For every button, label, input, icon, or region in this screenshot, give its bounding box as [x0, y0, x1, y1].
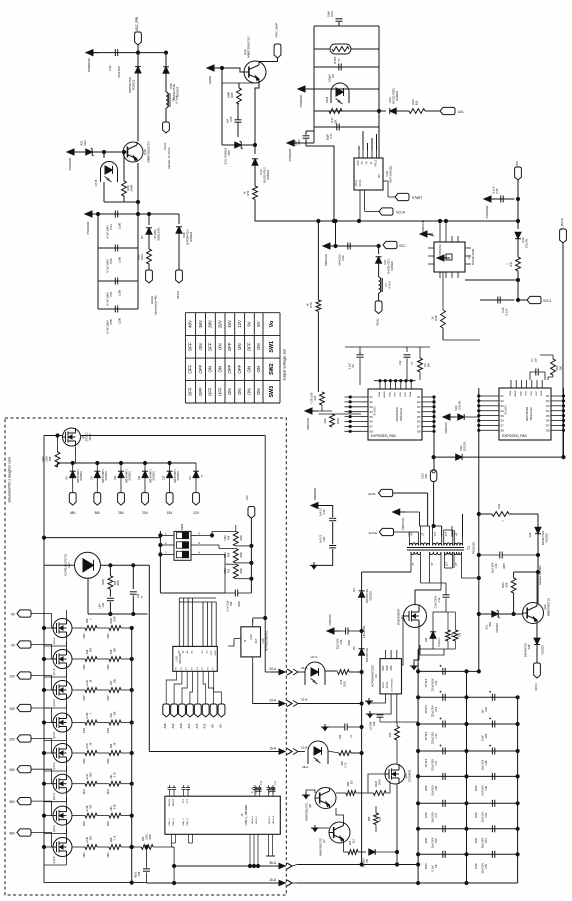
- svg-text:SOD523: SOD523: [177, 471, 180, 481]
- power flag VCC2: [383, 241, 406, 248]
- svg-text:1206: 1206: [348, 640, 351, 646]
- diode D8: [66, 463, 84, 493]
- svg-text:R95: R95: [230, 92, 234, 98]
- svg-text:NCP4306AAZZZAD: NCP4306AAZZZAD: [372, 665, 375, 687]
- transistor Q13-B: [53, 713, 72, 739]
- svg-text:23-A: 23-A: [269, 699, 277, 703]
- svg-text:0402: 0402: [108, 664, 110, 670]
- svg-text:GND: GND: [250, 634, 253, 640]
- svg-text:51K: 51K: [353, 838, 356, 843]
- svg-text:0402: 0402: [108, 727, 110, 733]
- svg-text:C55: C55: [484, 863, 488, 868]
- svg-text:1206: 1206: [475, 812, 478, 818]
- svg-text:24-B: 24-B: [301, 666, 307, 670]
- svg-text:D6: D6: [546, 419, 550, 423]
- wire: [434, 456, 456, 458]
- svg-text:ZD1: ZD1: [488, 621, 492, 626]
- svg-text:OUT: OUT: [255, 638, 258, 644]
- capacitor C12b: [425, 665, 445, 691]
- svg-text:R253: R253: [110, 617, 113, 623]
- svg-text:6.2V SOD323: 6.2V SOD323: [224, 147, 228, 164]
- svg-text:36V: 36V: [9, 800, 16, 804]
- svg-text:SOD523: SOD523: [105, 471, 108, 481]
- svg-text:Q7: Q7: [322, 839, 326, 843]
- optocoupler U7-B: [94, 162, 118, 187]
- svg-text:R68: R68: [110, 837, 113, 842]
- svg-text:ON: ON: [227, 388, 232, 395]
- wire: [179, 598, 216, 646]
- svg-text:10uF,50V: 10uF,50V: [482, 812, 485, 823]
- wire: [98, 308, 138, 310]
- svg-text:R60: R60: [110, 743, 113, 748]
- svg-text:36V: 36V: [94, 511, 101, 515]
- svg-text:ON: ON: [237, 344, 242, 351]
- connector pin 5V: [11, 610, 31, 617]
- connector pin 15V: [9, 704, 31, 711]
- svg-text:1206: 1206: [118, 290, 122, 296]
- wire: [359, 131, 377, 150]
- resistor R15: [433, 612, 462, 649]
- resistor R108: [72, 804, 97, 826]
- transistor Q1 IPA60R280: [397, 605, 427, 628]
- svg-text:Q8: Q8: [308, 804, 312, 808]
- wire: [160, 592, 225, 594]
- connector pin 12V: [193, 493, 200, 515]
- wire: [228, 639, 234, 646]
- svg-text:R58: R58: [110, 649, 113, 654]
- svg-text:U14: U14: [261, 638, 265, 643]
- svg-text:VCCA: VCCA: [386, 681, 389, 688]
- resistor R60: [97, 742, 133, 763]
- svg-text:D11: D11: [138, 475, 141, 480]
- svg-text:C26: C26: [138, 871, 141, 876]
- svg-text:C54: C54: [330, 11, 334, 17]
- svg-text:0.39 1206: 0.39 1206: [311, 392, 314, 404]
- table output voltage set: [185, 313, 286, 403]
- wire: [417, 827, 520, 830]
- off-page 15-A: [269, 747, 292, 755]
- wire: [81, 435, 265, 437]
- optocoupler U8-A: [302, 741, 328, 769]
- svg-text:10*16.5: 10*16.5: [425, 704, 428, 713]
- resistor R26: [224, 549, 243, 563]
- wire: [147, 882, 287, 884]
- svg-text:Q15-B: Q15-B: [53, 856, 56, 863]
- svg-text:15V: 15V: [9, 707, 16, 711]
- svg-text:J1: J1: [240, 813, 244, 816]
- svg-text:VBUS_3: VBUS_3: [269, 815, 271, 824]
- wire: [516, 180, 519, 229]
- svg-text:1206: 1206: [475, 837, 478, 843]
- svg-text:4.7uH: 4.7uH: [388, 281, 392, 288]
- IC U18 NCP1340JQ1: [354, 150, 395, 221]
- svg-text:12V: 12V: [193, 511, 200, 515]
- svg-text:PWRGND: PWRGND: [313, 488, 317, 500]
- wire: [395, 784, 398, 866]
- ground PWRGND: [86, 50, 99, 72]
- svg-text:PWRGND: PWRGND: [401, 518, 405, 530]
- svg-text:0805: 0805: [503, 563, 506, 569]
- svg-text:A20: A20: [187, 723, 191, 728]
- wire: [345, 347, 430, 382]
- wire: [236, 544, 253, 580]
- wire: [314, 48, 379, 50]
- svg-text:AUXL: AUXL: [368, 492, 376, 496]
- wire: [378, 293, 380, 301]
- svg-text:SOD323: SOD323: [546, 533, 549, 543]
- wire: [166, 671, 221, 704]
- svg-text:ES1JFL: ES1JFL: [438, 637, 441, 647]
- diode D18: [525, 638, 545, 657]
- zener ZD5: [224, 141, 243, 164]
- svg-text:C62: C62: [484, 706, 488, 711]
- svg-text:PWRGND: PWRGND: [68, 158, 72, 171]
- svg-text:2T: 2T: [411, 562, 415, 565]
- svg-text:C30: C30: [339, 734, 342, 739]
- svg-text:C34: C34: [109, 224, 113, 230]
- ground PWRGND: [323, 243, 336, 266]
- svg-text:R104: R104: [86, 679, 89, 685]
- svg-text:15-B: 15-B: [301, 746, 307, 750]
- svg-text:D22: D22: [454, 405, 458, 410]
- svg-text:PWRGND: PWRGND: [87, 57, 91, 71]
- transistor Q15-A: [53, 806, 72, 832]
- svg-text:FB: FB: [366, 161, 369, 164]
- svg-text:4.7uF,100V: 4.7uF,100V: [106, 292, 110, 306]
- svg-text:D7: D7: [140, 235, 144, 239]
- resistor R82: [336, 779, 368, 795]
- svg-text:1206: 1206: [475, 785, 478, 791]
- svg-text:28V: 28V: [118, 511, 125, 515]
- svg-text:AUXL: AUXL: [376, 318, 380, 326]
- resistor R33b: [409, 99, 425, 113]
- wire: [536, 645, 538, 664]
- wire: [31, 614, 53, 629]
- wire: [397, 722, 418, 726]
- connector pin 48V: [69, 493, 76, 515]
- diode D11: [138, 463, 156, 493]
- resistor R104: [72, 679, 97, 700]
- capacitor C21: [269, 780, 278, 791]
- svg-text:ES1JFL: ES1JFL: [525, 238, 529, 248]
- capacitor C28: [425, 773, 445, 796]
- resistor R25: [224, 564, 243, 579]
- svg-text:R55: R55: [555, 365, 559, 370]
- power flag AUXL: [163, 122, 171, 169]
- connector J1 USB-C: [165, 786, 280, 834]
- svg-text:R74: R74: [339, 679, 343, 684]
- svg-text:D8: D8: [546, 429, 550, 433]
- resistor R37: [506, 257, 521, 271]
- svg-text:1206: 1206: [425, 812, 428, 818]
- ground PWRGND: [437, 244, 450, 261]
- capacitor C53b: [294, 131, 335, 221]
- svg-text:RCP: RCP: [405, 392, 407, 397]
- svg-text:15V: 15V: [227, 320, 232, 328]
- potentiometer RTC1: [330, 44, 351, 64]
- svg-text:CS: CS: [361, 161, 364, 165]
- wire: [74, 151, 86, 153]
- svg-text:MMBTA06LT1G: MMBTA06LT1G: [547, 598, 551, 616]
- svg-text:DRV: DRV: [383, 665, 385, 670]
- svg-text:1nF: 1nF: [482, 709, 485, 714]
- svg-text:0603: 0603: [135, 872, 138, 878]
- svg-text:1K: 1K: [243, 191, 247, 194]
- svg-text:Q20: Q20: [404, 773, 408, 779]
- transistor Q10: [123, 141, 151, 162]
- wire: [417, 749, 520, 752]
- svg-text:A15: A15: [195, 723, 199, 728]
- svg-text:200R: 200R: [337, 418, 340, 424]
- wire: [85, 212, 179, 215]
- svg-text:D14: D14: [259, 169, 263, 175]
- wire: [58, 461, 197, 467]
- svg-text:1K: 1K: [431, 316, 435, 319]
- ground GND: [410, 628, 419, 670]
- svg-text:82pF: 82pF: [326, 134, 330, 140]
- svg-text:12V: 12V: [237, 320, 242, 328]
- svg-text:390: 390: [560, 365, 563, 370]
- svg-text:D23: D23: [459, 445, 463, 450]
- svg-text:R29: R29: [49, 456, 52, 461]
- capacitor C7: [530, 357, 545, 380]
- power flag +5V: [245, 495, 255, 518]
- resistor R2: [418, 358, 431, 380]
- transistor Q20: [385, 764, 412, 784]
- wire: [351, 751, 363, 754]
- power flag AUXH: [146, 270, 158, 315]
- capacitor C56: [106, 245, 122, 273]
- resistor R63: [97, 804, 133, 826]
- svg-text:AGND: AGND: [208, 76, 212, 84]
- dashed border simulated PCI.1 daughter card: [5, 418, 286, 895]
- svg-text:5V: 5V: [256, 321, 261, 326]
- wire: [479, 396, 492, 430]
- svg-text:15-A: 15-A: [269, 747, 277, 751]
- wire: [44, 564, 75, 566]
- svg-text:Q14-B: Q14-B: [53, 793, 56, 800]
- capacitor C49: [475, 773, 495, 796]
- svg-text:PPC_SKIP: PPC_SKIP: [275, 23, 279, 38]
- wire: [417, 775, 520, 778]
- svg-text:0402: 0402: [84, 633, 86, 639]
- IC U17 NCP431: [64, 552, 101, 578]
- wire: [250, 518, 252, 593]
- resistor R101: [72, 742, 97, 763]
- svg-text:10nF: 10nF: [327, 11, 331, 17]
- svg-text:VCC1: VCC1: [355, 179, 358, 186]
- svg-text:1nF,Y2: 1nF,Y2: [319, 534, 323, 543]
- diode D15: [425, 612, 446, 649]
- ground PWRGND: [420, 220, 434, 237]
- ground PWRGND: [298, 86, 314, 107]
- svg-text:A12: A12: [203, 723, 207, 728]
- wire: [104, 150, 140, 203]
- svg-text:GND: GND: [215, 650, 217, 655]
- svg-text:PWRGND: PWRGND: [306, 418, 310, 430]
- svg-text:C28: C28: [434, 785, 438, 790]
- off-page 24-B: [293, 666, 307, 675]
- svg-text:D7: D7: [417, 425, 421, 429]
- wire: [336, 808, 344, 822]
- svg-text:24-A: 24-A: [269, 667, 277, 671]
- svg-text:47uF,25V: 47uF,25V: [117, 66, 121, 78]
- resistor R120b: [368, 774, 390, 795]
- svg-text:VCCH: VCCH: [176, 291, 180, 299]
- svg-text:VCC: VCC: [399, 244, 406, 248]
- svg-text:17T: 17T: [433, 531, 437, 536]
- svg-text:BAT54HT1G: BAT54HT1G: [525, 643, 528, 657]
- svg-text:D8: D8: [417, 430, 421, 434]
- svg-text:ES1JFL: ES1JFL: [458, 400, 462, 410]
- svg-text:PWRGND: PWRGND: [329, 614, 332, 626]
- svg-text:2.7K: 2.7K: [345, 762, 348, 767]
- svg-text:BAS21HT6G: BAS21HT6G: [392, 88, 396, 104]
- wire: [425, 110, 440, 112]
- svg-text:SOD123FL: SOD123FL: [157, 227, 161, 241]
- wire: [562, 388, 564, 457]
- wire: [328, 751, 339, 753]
- wire: [44, 435, 62, 437]
- svg-text:C16: C16: [373, 721, 376, 726]
- wire: [31, 739, 53, 754]
- svg-text:R57: R57: [110, 680, 113, 685]
- resistor R253: [97, 616, 133, 639]
- svg-text:SOD323: SOD323: [132, 79, 136, 90]
- resistor R107: [72, 772, 97, 794]
- capacitor C41: [99, 589, 114, 614]
- wire: [253, 436, 267, 673]
- capacitor C16: [370, 700, 397, 730]
- connector pin 28V: [118, 493, 125, 515]
- svg-text:ON: ON: [237, 388, 242, 395]
- svg-text:FAULT: FAULT: [375, 159, 378, 167]
- ground PWRGND: [484, 196, 497, 218]
- connector pin 36V: [9, 798, 31, 805]
- svg-text:R82: R82: [346, 781, 350, 786]
- resistor R105: [72, 712, 97, 733]
- DIP switch SW3: [165, 523, 200, 560]
- transistor Q15-B: [53, 838, 72, 864]
- ground PWRGND: [311, 488, 324, 509]
- svg-text:OFF: OFF: [188, 364, 193, 373]
- svg-text:A9: A9: [211, 724, 215, 728]
- svg-text:C53: C53: [297, 139, 301, 145]
- svg-text:D5: D5: [352, 646, 356, 650]
- svg-text:VBUS_1: VBUS_1: [252, 815, 254, 824]
- svg-text:SOD323: SOD323: [266, 169, 270, 180]
- wire: [318, 506, 333, 518]
- wire: [212, 531, 236, 564]
- connector pin 20V: [142, 493, 149, 515]
- svg-text:0402: 0402: [108, 633, 110, 639]
- svg-text:PWRGND: PWRGND: [439, 244, 442, 255]
- svg-text:1nF: 1nF: [226, 118, 230, 123]
- svg-text:NCP1340JQ1: NCP1340JQ1: [389, 165, 393, 183]
- svg-text:200K: 200K: [379, 779, 382, 785]
- svg-text:20V: 20V: [142, 511, 149, 515]
- transistor Q14-A: [53, 744, 72, 770]
- svg-text:SW3: SW3: [180, 523, 184, 530]
- capacitor C19: [255, 780, 264, 791]
- svg-text:DBUG2: DBUG2: [173, 798, 175, 806]
- svg-text:0.1uF: 0.1uF: [432, 865, 435, 872]
- svg-text:L5: L5: [384, 283, 388, 287]
- svg-text:SOD523: SOD523: [129, 471, 132, 481]
- wire: [349, 670, 363, 673]
- svg-text:10uF,50V: 10uF,50V: [432, 837, 435, 848]
- wire: [42, 641, 66, 677]
- power flag VCC3: [534, 663, 541, 691]
- svg-text:GND: GND: [387, 665, 389, 670]
- svg-text:D3: D3: [546, 404, 550, 408]
- capacitor C44: [130, 592, 144, 614]
- diode D30: [515, 232, 529, 247]
- svg-text:R105: R105: [86, 712, 89, 718]
- svg-text:R37: R37: [509, 261, 513, 267]
- diode D7: [140, 214, 161, 241]
- ground GND: [311, 825, 329, 832]
- power flag VCC: [515, 160, 522, 180]
- svg-text:CC2: CC2: [187, 798, 189, 803]
- svg-text:0402: 0402: [84, 820, 86, 826]
- svg-text:10nF: 10nF: [99, 603, 102, 609]
- capacitor C60: [482, 718, 495, 741]
- wire: [168, 785, 276, 796]
- svg-text:C12: C12: [437, 597, 441, 602]
- capacitor C62: [482, 691, 495, 714]
- svg-text:PWRGND: PWRGND: [445, 422, 448, 434]
- svg-text:NCP45920: NCP45920: [525, 407, 529, 422]
- capacitor C9: [328, 64, 342, 82]
- resistor R14: [224, 525, 243, 546]
- svg-text:IPA60R280P6: IPA60R280P6: [397, 608, 401, 625]
- ground GND: [321, 724, 329, 731]
- svg-text:36V: 36V: [198, 320, 203, 328]
- power flag V_BULK: [560, 218, 567, 243]
- transistor Q6: [63, 428, 93, 446]
- svg-text:GND_2: GND_2: [173, 818, 175, 826]
- svg-text:USB-C_16PSMD: USB-C_16PSMD: [244, 805, 248, 826]
- svg-text:C15: C15: [434, 733, 438, 738]
- svg-text:RTC1: RTC1: [333, 56, 337, 64]
- wire: [417, 881, 518, 884]
- svg-text:EXPOSED_PAD: EXPOSED_PAD: [371, 434, 397, 438]
- IC U4 NCP4306: [372, 650, 402, 700]
- svg-text:17T: 17T: [444, 531, 448, 536]
- svg-text:0402: 0402: [240, 568, 243, 574]
- capacitor C47: [425, 800, 445, 823]
- wire: [536, 624, 538, 639]
- svg-text:D4: D4: [417, 410, 421, 414]
- capacitor C14: [425, 691, 445, 717]
- wire: [417, 696, 520, 699]
- svg-text:OFF: OFF: [198, 364, 203, 373]
- connector pin 9V: [11, 641, 31, 648]
- capacitor C65: [226, 104, 242, 137]
- connector pin 15V: [166, 493, 173, 515]
- wire: [402, 616, 404, 665]
- svg-text:300K: 300K: [224, 568, 227, 574]
- svg-text:C54: C54: [484, 838, 488, 843]
- resistor R31: [492, 503, 509, 522]
- svg-text:U8-A: U8-A: [302, 765, 309, 769]
- wire: [415, 560, 441, 605]
- svg-text:R26: R26: [228, 552, 231, 557]
- svg-text:Q15-A: Q15-A: [53, 825, 56, 832]
- svg-text:OFF: OFF: [188, 342, 193, 351]
- svg-text:NCP551SN50T1G: NCP551SN50T1G: [266, 631, 269, 652]
